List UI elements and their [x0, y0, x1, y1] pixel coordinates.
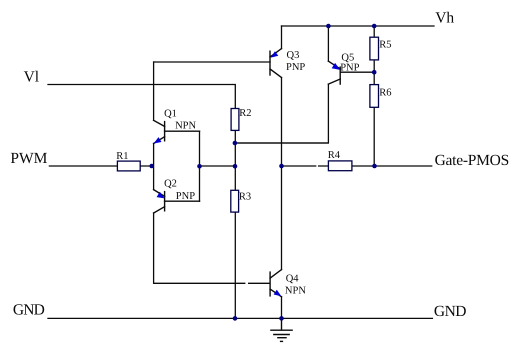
svg-text:R1: R1 — [116, 151, 128, 162]
svg-text:Gate-PMOS: Gate-PMOS — [435, 152, 509, 169]
svg-text:GND: GND — [13, 302, 45, 319]
svg-text:PWM: PWM — [10, 150, 47, 167]
svg-text:Q4: Q4 — [286, 274, 300, 285]
svg-text:PNP: PNP — [340, 63, 359, 74]
svg-text:GND: GND — [434, 303, 466, 320]
svg-text:Vl: Vl — [24, 69, 39, 86]
svg-text:Q1: Q1 — [164, 108, 177, 119]
svg-text:Vh: Vh — [435, 10, 454, 27]
svg-text:NPN: NPN — [175, 121, 196, 132]
svg-text:R6: R6 — [379, 87, 391, 98]
svg-text:PNP: PNP — [286, 62, 305, 73]
svg-text:PNP: PNP — [176, 191, 195, 202]
svg-text:NPN: NPN — [285, 285, 306, 296]
svg-text:R2: R2 — [239, 108, 251, 119]
svg-text:R5: R5 — [379, 40, 391, 51]
svg-text:R3: R3 — [239, 192, 251, 203]
svg-text:Q2: Q2 — [164, 178, 177, 189]
svg-text:R4: R4 — [328, 150, 341, 161]
svg-text:Q3: Q3 — [287, 50, 300, 61]
